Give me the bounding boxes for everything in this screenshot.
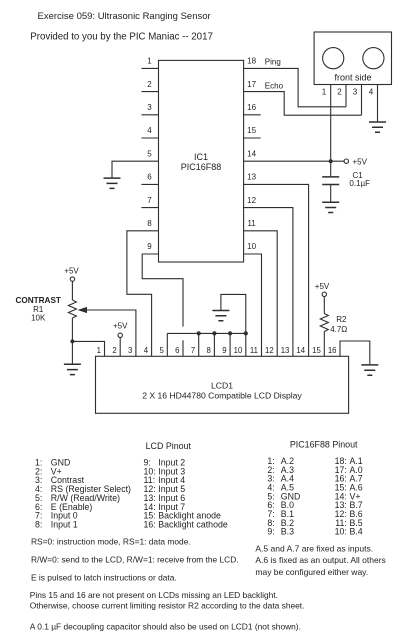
ground pin5 xyxy=(104,178,121,188)
junction dot pot bottom / LCD pin1 xyxy=(70,339,74,343)
svg-text:10K: 10K xyxy=(31,314,46,323)
sensor module (front side) xyxy=(314,32,391,85)
sensor pin 1 wire to +5V node xyxy=(322,85,331,162)
svg-text:8: 8 xyxy=(147,219,152,228)
svg-text:3: 3 xyxy=(147,103,152,112)
resistor R2 4.7 ohm xyxy=(320,297,347,357)
wire pin18 Ping to sensor pin2 xyxy=(244,68,346,106)
pin 16 stub xyxy=(244,103,261,115)
svg-text:Exercise 059: Ultrasonic Rangi: Exercise 059: Ultrasonic Ranging Sensor xyxy=(38,11,211,22)
PIC16F88 Pinout table right column xyxy=(335,456,363,537)
pin 12 stub xyxy=(247,196,256,205)
pin 10 stub xyxy=(247,242,256,251)
svg-text:A.6 is fixed as an output. All: A.6 is fixed as an output. All others xyxy=(255,555,385,565)
svg-text:1: 1 xyxy=(322,88,327,97)
svg-text:9: 9 xyxy=(222,346,226,355)
svg-text:Provided to you by the PIC Man: Provided to you by the PIC Maniac -- 201… xyxy=(30,31,213,42)
notes serif left xyxy=(30,537,305,632)
note A ports sans xyxy=(255,544,385,578)
pin 11 stub xyxy=(247,219,256,228)
svg-text:1: 1 xyxy=(97,346,101,355)
PIC16F88 Pinout table left column xyxy=(267,456,300,537)
svg-text:A.5 and A.7 are fixed as input: A.5 and A.7 are fixed as inputs. xyxy=(255,544,373,554)
svg-text:13: 13 xyxy=(247,173,256,182)
svg-text:15: 15 xyxy=(312,346,321,355)
wire pin10 to LCD pin11 xyxy=(244,254,262,356)
pin 13 stub xyxy=(247,173,256,182)
ground C1 xyxy=(322,202,339,212)
svg-text:Echo: Echo xyxy=(265,81,284,90)
wire LCD pin16 to ground xyxy=(340,341,370,364)
svg-text:2: 2 xyxy=(337,88,342,97)
svg-text:11: 11 xyxy=(250,346,258,355)
node +5V for LCD pin2 xyxy=(113,322,128,357)
svg-text:B.3: B.3 xyxy=(281,527,294,537)
svg-text:17: 17 xyxy=(247,80,256,89)
svg-text:2 X 16 HD44780 Compatible LCD: 2 X 16 HD44780 Compatible LCD Display xyxy=(142,390,302,400)
LCD Pinout table right column xyxy=(144,458,228,530)
svg-text:CONTRAST: CONTRAST xyxy=(15,296,60,305)
wire pin9 to LCD pin6 (E), crossing gap at ground bus xyxy=(142,254,183,327)
svg-text:7: 7 xyxy=(191,346,195,355)
junction dot bus pin10 xyxy=(244,331,248,335)
svg-text:B.4: B.4 xyxy=(350,527,363,537)
wire pin11 to LCD pin12 xyxy=(244,231,278,356)
svg-text:4.7Ω: 4.7Ω xyxy=(330,325,347,334)
svg-text:LCD Pinout: LCD Pinout xyxy=(146,441,192,451)
LCD Pinout table left column xyxy=(35,458,131,530)
svg-text:+5V: +5V xyxy=(315,282,330,291)
svg-text:2: 2 xyxy=(112,346,116,355)
pin 18 stub xyxy=(247,57,256,66)
pin 14 stub xyxy=(247,149,256,158)
wire pin8 to LCD pin4 (RS) xyxy=(127,231,159,356)
sensor pin 3 wire xyxy=(353,85,362,116)
wire pin12 to LCD pin13 xyxy=(244,208,293,357)
svg-text:16:: 16: xyxy=(144,520,156,530)
svg-text:E is pulsed to latch instructi: E is pulsed to latch instructions or dat… xyxy=(31,573,177,583)
junction dot bus pin9 xyxy=(228,331,232,335)
svg-text:1: 1 xyxy=(147,57,152,66)
svg-text:9:: 9: xyxy=(267,527,274,537)
svg-text:7: 7 xyxy=(147,196,152,205)
node +5V for R1 pot xyxy=(64,266,79,281)
svg-text:15: 15 xyxy=(247,126,256,135)
svg-text:+5V: +5V xyxy=(64,266,79,275)
svg-text:LCD1: LCD1 xyxy=(211,380,233,390)
ground bus for LCD pins 5,7,8,9,10 xyxy=(167,332,246,334)
op-amp U1 : IC1 PIC16F88 body xyxy=(159,60,244,262)
svg-text:11: 11 xyxy=(247,219,256,228)
svg-text:R/W=0: send to the LCD, R/W=1:: R/W=0: send to the LCD, R/W=1: receive f… xyxy=(31,555,239,565)
node +5V supply terminal xyxy=(344,159,348,163)
svg-text:may be configured either way.: may be configured either way. xyxy=(255,567,368,577)
sensor pin 2 wire xyxy=(337,85,346,107)
svg-text:12: 12 xyxy=(247,196,256,205)
capacitor C1 xyxy=(322,163,370,202)
ground LCD pin16 xyxy=(361,365,378,375)
svg-text:PIC16F88: PIC16F88 xyxy=(181,162,222,172)
svg-text:+5V: +5V xyxy=(113,322,128,331)
svg-text:+5V: +5V xyxy=(353,157,368,166)
svg-text:13: 13 xyxy=(281,346,290,355)
ground R1 bottom xyxy=(64,364,81,374)
wire pin14 to +5V node xyxy=(244,160,345,162)
svg-text:4: 4 xyxy=(369,88,374,97)
resistor R1 potentiometer CONTRAST 10K xyxy=(15,281,76,364)
pin 7 stub xyxy=(142,196,159,208)
svg-text:IC1: IC1 xyxy=(194,152,208,162)
svg-text:Pins 15 and 16 are not present: Pins 15 and 16 are not present on LCDs m… xyxy=(30,590,278,600)
svg-text:10:: 10: xyxy=(335,527,347,537)
svg-text:Otherwise, choose current limi: Otherwise, choose current limiting resis… xyxy=(30,601,305,611)
junction dot +5V node xyxy=(329,159,333,163)
pot wiper arrow to LCD pin3 xyxy=(78,307,136,356)
pin 8 stub xyxy=(147,219,152,228)
svg-text:12: 12 xyxy=(265,346,274,355)
svg-text:0.1µF: 0.1µF xyxy=(349,179,370,188)
pin 1 stub xyxy=(142,57,159,69)
svg-text:3: 3 xyxy=(353,88,358,97)
svg-text:8:: 8: xyxy=(35,520,42,530)
pin 4 stub xyxy=(142,126,159,138)
svg-text:8: 8 xyxy=(207,346,211,355)
pin 6 stub xyxy=(142,173,159,185)
wire bus to LCD pin10 xyxy=(245,333,247,356)
wire LCD pin1 to pot ground column xyxy=(72,341,104,356)
svg-text:4: 4 xyxy=(144,346,149,355)
svg-text:6: 6 xyxy=(147,173,152,182)
svg-text:RS=0: instruction mode, RS=1:: RS=0: instruction mode, RS=1: data mode. xyxy=(31,537,191,547)
wire bus to ground symbol xyxy=(221,294,246,333)
node +5V for R2 xyxy=(315,282,330,297)
wire bus to LCD pin8 xyxy=(213,333,215,356)
junction dot bus pin8 xyxy=(212,331,216,335)
svg-text:Backlight cathode: Backlight cathode xyxy=(158,520,228,530)
wire bus to LCD pin7 xyxy=(198,333,200,356)
svg-text:9: 9 xyxy=(147,242,152,251)
ground bus xyxy=(212,311,229,321)
sensor pin 4 wire to ground xyxy=(369,85,378,122)
wire bus to LCD pin9 xyxy=(229,333,231,356)
svg-text:4: 4 xyxy=(147,126,152,135)
junction dot bus pin7 xyxy=(197,331,201,335)
svg-text:10: 10 xyxy=(234,346,243,355)
pin 2 stub xyxy=(142,80,159,92)
LCD pin numbers 1-16 xyxy=(97,346,337,355)
svg-text:18: 18 xyxy=(247,57,256,66)
svg-text:Input 1: Input 1 xyxy=(51,520,78,530)
pin 9 stub xyxy=(147,242,152,251)
svg-text:14: 14 xyxy=(296,346,305,355)
pin 15 stub xyxy=(244,126,261,138)
svg-text:6: 6 xyxy=(175,346,179,355)
LCD1 display body xyxy=(96,356,349,413)
svg-text:5: 5 xyxy=(159,346,164,355)
pin 17 stub xyxy=(247,80,256,89)
svg-text:16: 16 xyxy=(247,103,256,112)
svg-text:16: 16 xyxy=(328,346,337,355)
wire pin17 Echo to sensor pin3 xyxy=(244,92,362,116)
svg-text:2: 2 xyxy=(147,80,152,89)
svg-text:5: 5 xyxy=(147,149,152,158)
svg-text:Ping: Ping xyxy=(265,58,281,67)
svg-text:3: 3 xyxy=(128,346,132,355)
svg-text:front side: front side xyxy=(334,73,371,83)
wire pin13 to LCD pin14 xyxy=(244,184,309,356)
svg-text:14: 14 xyxy=(247,149,256,158)
svg-text:10: 10 xyxy=(247,242,256,251)
wire pin5 to ground xyxy=(112,161,159,177)
pin 3 stub xyxy=(142,103,159,115)
wire bus to LCD pin5 xyxy=(166,333,168,356)
svg-text:R2: R2 xyxy=(336,315,347,324)
svg-text:A 0.1 µF decoupling capacitor: A 0.1 µF decoupling capacitor should als… xyxy=(30,622,301,632)
ground sensor pin4 xyxy=(369,122,386,132)
pin 5 stub xyxy=(147,149,152,158)
svg-text:PIC16F88 Pinout: PIC16F88 Pinout xyxy=(290,440,358,450)
